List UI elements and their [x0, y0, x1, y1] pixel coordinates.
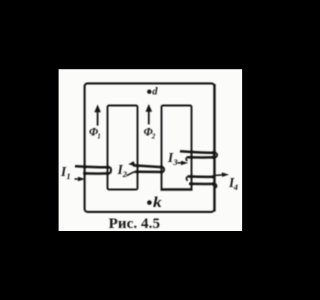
- svg-text:1: 1: [66, 171, 70, 181]
- svg-text:1: 1: [97, 133, 101, 141]
- label Phi2: [144, 126, 156, 140]
- current arrow I2: [128, 161, 136, 166]
- core outline (outer rectangle of magnetic core): [85, 83, 215, 212]
- winding W2 on middle limb: [127, 164, 165, 176]
- window 2 (right core window): [162, 106, 192, 190]
- label I3: [167, 150, 178, 167]
- svg-text:2: 2: [151, 133, 156, 141]
- label I1: [60, 164, 71, 181]
- svg-text:k: k: [153, 195, 162, 210]
- node k: [147, 200, 152, 205]
- svg-text:Рис. 4.5: Рис. 4.5: [109, 216, 161, 232]
- label I4: [228, 175, 239, 192]
- window 1 (left core window): [108, 106, 138, 190]
- scan paper background: [59, 69, 243, 231]
- window 2 thick bottom edge: [161, 188, 193, 191]
- label Phi1: [89, 126, 101, 140]
- svg-text:d: d: [152, 87, 158, 98]
- label k: [153, 195, 162, 210]
- svg-text:3: 3: [172, 157, 178, 167]
- winding W4 on right limb (lower): [186, 175, 216, 188]
- svg-text:2: 2: [122, 169, 128, 179]
- label I2: [117, 162, 128, 179]
- current arrow I1: [75, 177, 86, 181]
- flux arrow Phi1: [94, 105, 101, 126]
- winding W3 on right limb (upper): [180, 150, 217, 161]
- core outline right edge reinforcement: [214, 84, 216, 212]
- winding W1 on left limb: [75, 165, 111, 175]
- current arrow I3: [178, 161, 189, 165]
- current arrow I4: [216, 172, 230, 177]
- node d: [147, 90, 151, 94]
- flux arrow Phi2: [146, 104, 153, 124]
- svg-text:4: 4: [233, 182, 239, 192]
